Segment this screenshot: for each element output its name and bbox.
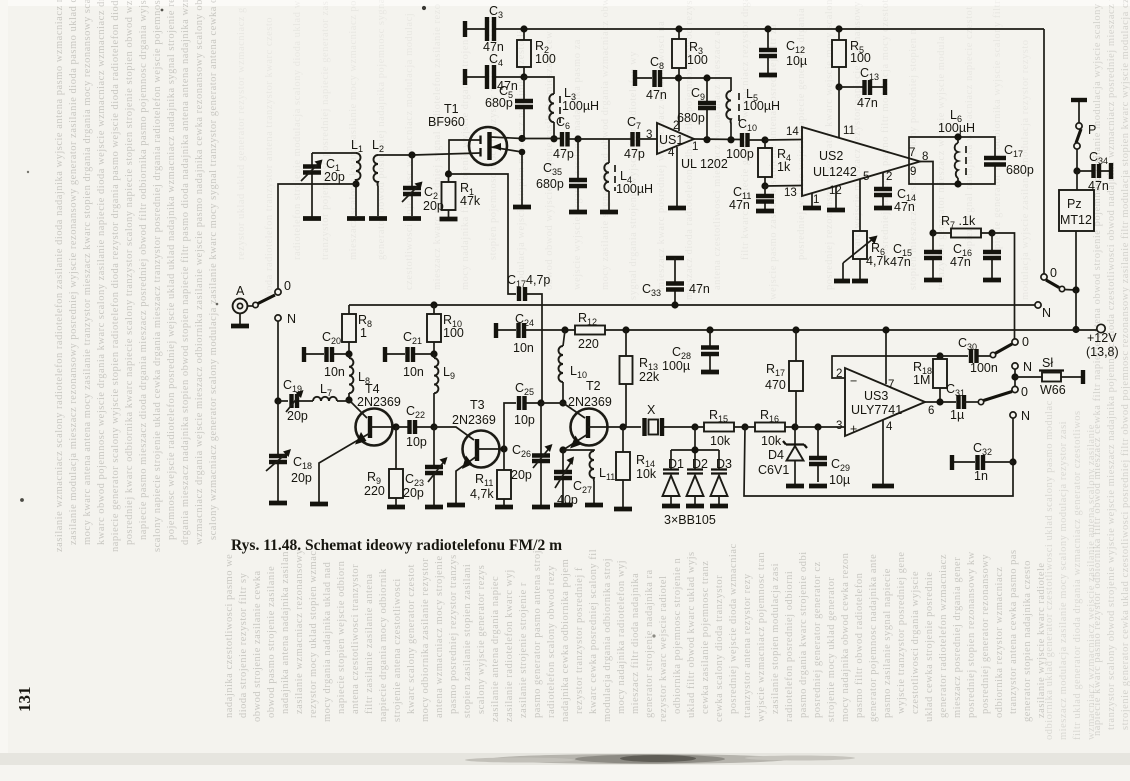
- ground C35: [569, 210, 587, 215]
- ground T4 emitter: [310, 502, 328, 507]
- ground C14: [874, 206, 892, 211]
- node R16/D4/R17: [791, 423, 798, 430]
- inductor L2: [372, 138, 384, 216]
- svg-text:odbiornika rezystor wzmacniacz: odbiornika rezystor wzmacniacz: [994, 567, 1005, 718]
- node C9 bottom: [703, 136, 710, 143]
- svg-text:wzmacniacz drgania wejscie mie: wzmacniacz drgania wejscie mieszacz odbi…: [194, 0, 205, 545]
- svg-text:antena czestotliwosci tranzyst: antena czestotliwosci tranzystor: [350, 564, 361, 714]
- node T1 drain / C5-L3: [518, 135, 525, 142]
- svg-text:4: 4: [886, 421, 893, 433]
- ground L4: [600, 210, 618, 215]
- node Pz/+12V rail: [1072, 326, 1079, 333]
- svg-text:100: 100: [687, 53, 708, 67]
- node C12 top rail: [764, 25, 771, 32]
- svg-text:1: 1: [692, 141, 698, 153]
- ground C12: [759, 73, 777, 78]
- svg-text:BF960: BF960: [428, 115, 465, 129]
- wire US2 pin8 output: [920, 162, 933, 234]
- svg-text:X: X: [647, 403, 656, 417]
- svg-text:20p: 20p: [511, 468, 532, 482]
- node C32: [1009, 458, 1016, 465]
- node C10/R4/pin14: [761, 136, 768, 143]
- wire pin3 line: [795, 426, 845, 428]
- svg-text:10p: 10p: [406, 435, 427, 449]
- svg-text:mocy kwarc antena antena mocy: mocy kwarc antena antena mocy zasilanie …: [82, 0, 93, 545]
- inductor L4 100µH: [604, 139, 653, 210]
- node pin8/R7/C15: [929, 229, 936, 236]
- svg-text:47n: 47n: [894, 200, 915, 214]
- svg-text:47k: 47k: [460, 194, 481, 208]
- node T3 collector/R11/C25: [500, 445, 507, 452]
- wire Pz node to +12V rail: [1075, 290, 1077, 330]
- svg-text:zasilanie antena drgania napie: zasilanie antena drgania napiec: [490, 576, 501, 722]
- ground D3: [710, 504, 728, 509]
- inductor L11: [563, 450, 615, 503]
- svg-text:6: 6: [928, 405, 934, 417]
- svg-text:pasmo generator pasmo antena s: pasmo generator pasmo antena stroj: [532, 550, 543, 718]
- svg-text:680p: 680p: [677, 111, 705, 125]
- svg-text:scalony wzmacniacz generator s: scalony wzmacniacz generator scalony mod…: [208, 0, 219, 540]
- node R8/C20/L8: [345, 350, 352, 357]
- capacitor C22 10p: [396, 404, 434, 449]
- node C19/N wire: [274, 397, 281, 404]
- svg-text:US3: US3: [864, 389, 888, 403]
- capacitor C5: [485, 77, 533, 138]
- svg-text:nadajnika cewka odbiornika poj: nadajnika cewka odbiornika pojem: [560, 559, 571, 722]
- svg-text:4,7k: 4,7k: [866, 254, 890, 268]
- svg-text:zasilanie strojenie strojenie: zasilanie strojenie strojenie r: [518, 582, 529, 718]
- svg-text:4,7k: 4,7k: [470, 487, 494, 501]
- svg-text:100: 100: [850, 51, 871, 65]
- capacitor C25 10p: [504, 381, 540, 449]
- varicap diode D2: [687, 457, 709, 504]
- capacitor C20 10n: [304, 330, 349, 379]
- capacitor C14 47n: [874, 187, 916, 214]
- svg-text:napiecie generator filtr odbio: napiecie generator filtr odbiornika wyjs…: [992, 0, 1003, 260]
- node Pz/switch: [1072, 286, 1079, 293]
- switch 0 (antenna rail, right): [1041, 29, 1076, 292]
- capacitor C17 4,7p (feedback): [507, 273, 550, 403]
- svg-text:−: −: [850, 374, 857, 388]
- resistor R4 1k: [758, 140, 791, 186]
- ground C18: [269, 501, 287, 506]
- capacitor C8 47n: [635, 55, 678, 102]
- wire US2 pin5: [859, 179, 861, 231]
- svg-text:470: 470: [765, 378, 786, 392]
- ground R14: [614, 507, 632, 512]
- svg-text:3: 3: [646, 129, 652, 141]
- wire L2 to T1 gate2: [378, 154, 413, 156]
- svg-text:680p: 680p: [485, 96, 513, 110]
- svg-text:100µH: 100µH: [562, 99, 599, 113]
- capacitor C6 47p: [553, 115, 578, 161]
- svg-text:rezystor mocy uklad stopien wz: rezystor mocy uklad stopien wzmac: [308, 550, 319, 718]
- wire C25 node to T2 base node: [541, 402, 563, 404]
- svg-text:dioda radiotelefon tranzystor: dioda radiotelefon tranzystor antena tra…: [264, 17, 275, 300]
- svg-text:scalony wyjscie generator rezy: scalony wyjscie generator rezys: [476, 565, 487, 714]
- svg-text:zasilanie wzmacniacz scalony r: zasilanie wzmacniacz scalony radiotelefo…: [54, 0, 65, 552]
- inductor L7: [298, 382, 349, 401]
- wire C8 node to C9/L5: [679, 78, 732, 91]
- svg-text:czestotliwosci drgania wyjscie: czestotliwosci drgania wyjscie: [910, 571, 921, 714]
- wire audio feedback loop bottom: [744, 418, 1013, 496]
- ground C23: [425, 505, 443, 510]
- ground L2: [369, 216, 387, 221]
- svg-text:47n: 47n: [646, 88, 667, 102]
- svg-text:zasilanie stopien modulacja za: zasilanie stopien modulacja zasi: [770, 563, 781, 714]
- svg-text:mieszacz kwarc posredniej sygn: mieszacz kwarc posredniej sygnal radiote…: [432, 3, 443, 290]
- svg-text:uklad filtr obwod kwarc uklad: uklad filtr obwod kwarc uklad wyjs: [686, 551, 697, 718]
- svg-text:napiecie pasmo mieszacz dioda: napiecie pasmo mieszacz dioda drgania mi…: [138, 0, 149, 540]
- svg-text:10k: 10k: [710, 434, 731, 448]
- node R3 top rail: [675, 25, 682, 32]
- svg-text:tranzystor scalony obwod stroj: tranzystor scalony obwod strojenie wyjsc…: [1106, 0, 1117, 730]
- capacitor C9 680p: [677, 78, 716, 140]
- node C6/C35: [574, 135, 581, 142]
- ground C27: [554, 503, 572, 508]
- svg-text:9: 9: [910, 166, 916, 178]
- capacitor C19 20p (variable): [278, 378, 308, 423]
- ground R6 bottom: [852, 279, 868, 284]
- svg-text:rezystor kwarc wejscie radiote: rezystor kwarc wejscie radiotel: [658, 576, 669, 722]
- inductor L8: [349, 354, 370, 400]
- node C29: [814, 423, 821, 430]
- svg-text:1n: 1n: [974, 469, 988, 483]
- ground pin12: [827, 208, 845, 213]
- transistor T4 2N2369: [319, 382, 401, 502]
- svg-text:14: 14: [786, 126, 799, 138]
- node C33 on N line: [671, 301, 678, 308]
- svg-text:2N2369: 2N2369: [452, 413, 496, 427]
- wire T1 source to ground: [521, 152, 523, 205]
- svg-text:0: 0: [1022, 335, 1029, 349]
- svg-text:5: 5: [863, 171, 869, 183]
- resistor R5: [832, 29, 871, 87]
- svg-text:4: 4: [668, 147, 675, 159]
- svg-text:0: 0: [284, 279, 291, 293]
- switch C30 (0 contact): [990, 335, 1029, 358]
- bottom scan smudge band: [0, 753, 1130, 765]
- antenna connector A: [233, 284, 253, 325]
- svg-text:20p: 20p: [423, 199, 444, 213]
- ground pin1: [803, 206, 821, 211]
- node R13 on +12V rail: [622, 326, 629, 333]
- ground R9: [387, 505, 405, 510]
- resistor R18 1M: [913, 356, 947, 402]
- svg-text:mocy odbiornika zasilanie rezy: mocy odbiornika zasilanie rezystor: [420, 558, 431, 722]
- svg-text:zasilanie wzmacniacz rezonanso: zasilanie wzmacniacz rezonansowy: [294, 548, 305, 714]
- switch lower N contact: [1010, 412, 1016, 418]
- switch Sl N contact: [1012, 363, 1018, 369]
- svg-text:2N2369: 2N2369: [568, 395, 612, 409]
- svg-text:rezystor uklad uklad generator: rezystor uklad uklad generator rezystor …: [236, 7, 247, 260]
- svg-text:mocy nadajnika radiotelefon wy: mocy nadajnika radiotelefon wyj: [616, 560, 627, 714]
- capacitor C24 10n: [496, 312, 534, 355]
- resistor R3: [672, 29, 708, 78]
- svg-text:posredniej napiecie pasmo filt: posredniej napiecie pasmo filtr modulacj…: [880, 0, 891, 260]
- svg-text:R7 .1k: R7 .1k: [941, 214, 976, 230]
- ground US1 pin4: [668, 206, 686, 211]
- op-amp US1 UL1202: [646, 120, 728, 171]
- node C8/R3/pin2: [675, 74, 682, 81]
- node R10/C21/L9: [430, 350, 437, 357]
- svg-text:20p: 20p: [403, 486, 424, 500]
- svg-text:cewka scalony dioda tranzystor: cewka scalony dioda tranzystor: [714, 575, 725, 722]
- svg-text:1µ: 1µ: [950, 408, 964, 422]
- capacitor C30 100n: [940, 336, 998, 375]
- node R18 top: [936, 352, 943, 359]
- svg-text:220: 220: [578, 337, 599, 351]
- capacitor C12 10µ: [759, 29, 807, 73]
- capacitor C33 47n: [642, 258, 710, 305]
- transistor T3 2N2369: [434, 398, 504, 503]
- svg-text:20p: 20p: [287, 409, 308, 423]
- svg-text:47n: 47n: [857, 96, 878, 110]
- capacitor C15 47n: [890, 233, 942, 278]
- resistor R12 220: [575, 311, 605, 351]
- capacitor C26 20p (variable): [511, 403, 553, 505]
- svg-text:W66: W66: [1040, 383, 1066, 397]
- svg-text:T3: T3: [470, 398, 485, 412]
- ground T3 emitter: [447, 503, 465, 508]
- ground L11: [585, 503, 603, 508]
- node C28 on rail: [706, 326, 713, 333]
- ground C16: [983, 278, 1001, 283]
- resistor R2: [517, 29, 556, 77]
- node pin7 rail: [882, 326, 889, 333]
- ground L1: [347, 216, 365, 221]
- svg-text:T1: T1: [444, 102, 459, 116]
- svg-text:100µH: 100µH: [743, 99, 780, 113]
- node R17 top: [792, 326, 799, 333]
- svg-text:Pz: Pz: [1067, 197, 1082, 211]
- svg-text:UL 1202: UL 1202: [681, 157, 728, 171]
- svg-text:dioda strojenie rezystor filtr: dioda strojenie rezystor filtr sy: [238, 572, 249, 718]
- svg-text:ULY7741: ULY7741: [851, 403, 902, 417]
- wire US3 pin6 output: [925, 401, 956, 403]
- svg-text:10k: 10k: [761, 434, 782, 448]
- resistor R10 100: [427, 305, 464, 354]
- svg-text:1M: 1M: [913, 373, 930, 387]
- svg-text:47p: 47p: [553, 147, 574, 161]
- ground D4: [786, 484, 804, 489]
- svg-text:Sł: Sł: [1042, 356, 1053, 370]
- wire to US2 pin 14: [765, 139, 802, 142]
- svg-text:odbiornika uklad generator cze: odbiornika uklad generator czestotliwosc…: [1044, 400, 1055, 740]
- capacitor C2 20p (variable): [402, 155, 444, 216]
- svg-text:mieszacz filtr dioda nadajnika: mieszacz filtr dioda nadajnika: [630, 573, 641, 714]
- node T1 gate1/R1: [445, 170, 452, 177]
- svg-text:obwod strojenie zasilanie cewk: obwod strojenie zasilanie cewka: [252, 570, 263, 722]
- microphone insert Pz MT12: [1059, 171, 1094, 290]
- wire +12V rail: [496, 329, 1097, 331]
- svg-text:10n: 10n: [403, 365, 424, 379]
- svg-text:mieszacz scalony kwarc zasilan: mieszacz scalony kwarc zasilanie mocy wz…: [348, 0, 359, 260]
- box L6/C17 tank: [909, 137, 995, 184]
- svg-text:10n: 10n: [324, 365, 345, 379]
- svg-text:obwod pasmo strojenie zasilani: obwod pasmo strojenie zasilanie: [266, 566, 277, 718]
- inductor L5 100µH: [726, 87, 780, 140]
- svg-text:0: 0: [1021, 385, 1028, 399]
- capacitor C17 680p: [984, 143, 1034, 177]
- wire US2 pin1 to ground: [811, 193, 813, 206]
- svg-text:stopien zasilanie stopien zasi: stopien zasilanie stopien zasilani: [462, 564, 473, 718]
- inductor L1: [351, 138, 363, 216]
- svg-text:posredniej generator generator: posredniej generator generator cz: [812, 561, 823, 718]
- node L5 bottom: [727, 136, 734, 143]
- svg-text:1: 1: [813, 194, 819, 206]
- node R7/C16: [988, 229, 995, 236]
- wire N line (receive rail): [349, 304, 1035, 306]
- svg-text:7: 7: [888, 379, 894, 391]
- svg-text:zasilanie modulacja mieszacz r: zasilanie modulacja mieszacz rezonansowy…: [68, 0, 79, 545]
- wire US1 pin1 output: [694, 138, 742, 141]
- op-amp US3 ULY7741: [836, 368, 934, 436]
- resistor R13 22k: [620, 330, 660, 427]
- svg-text:generator obwod posredniej nad: generator obwod posredniej nadajnika poj…: [376, 0, 387, 260]
- varicap diode D3: [711, 457, 733, 504]
- svg-text:+12V: +12V: [1087, 331, 1117, 345]
- svg-text:generator radiotelefon wzmacni: generator radiotelefon wzmacniacz: [938, 554, 949, 718]
- capacitor C21 10n: [385, 330, 434, 379]
- ground T1 source: [513, 205, 531, 210]
- svg-text:radiotelefon scalony obwod rez: radiotelefon scalony obwod rezy: [546, 565, 557, 718]
- svg-text:1k: 1k: [777, 160, 791, 174]
- capacitor C13 47n: [839, 66, 885, 110]
- wire to US2 pin 13: [765, 185, 802, 188]
- svg-text:10p: 10p: [514, 413, 535, 427]
- capacitor C23 20p (variable): [403, 427, 448, 505]
- svg-text:MT12: MT12: [1060, 213, 1092, 227]
- svg-text:posredniej kwarc odbiornika kw: posredniej kwarc odbiornika kwarc napiec…: [124, 0, 135, 545]
- node pin6/R18: [936, 398, 943, 405]
- node Sl: [1011, 373, 1018, 380]
- svg-text:100µH: 100µH: [616, 182, 653, 196]
- wire US1 pin4 to ground: [676, 147, 678, 206]
- svg-text:nadajnika antena nadajnika zas: nadajnika antena nadajnika zasilan: [280, 551, 291, 714]
- terminal N (right): [1035, 302, 1041, 308]
- node C22/L9/C23/T3 base: [430, 423, 437, 430]
- terminal +12V: [1097, 324, 1105, 332]
- capacitor C18 20p (variable): [266, 401, 312, 501]
- svg-text:posredniej wejscie dioda wzmac: posredniej wejscie dioda wzmacniac: [728, 543, 739, 714]
- svg-text:100: 100: [535, 52, 556, 66]
- svg-text:131: 131: [15, 687, 34, 713]
- wire N contact down to C19/C18 node: [277, 321, 279, 401]
- svg-text:radiotelefon strojenie modulac: radiotelefon strojenie modulacja scalony…: [292, 0, 303, 260]
- svg-text:T4: T4: [365, 382, 380, 396]
- svg-text:pojemnosc wejscie radiotelefon: pojemnosc wejscie radiotelefon posrednie…: [166, 0, 177, 540]
- svg-text:C174,7p: C174,7p: [507, 273, 550, 289]
- svg-text:kwarc cewka posredniej scalony: kwarc cewka posredniej scalony fil: [588, 549, 599, 714]
- svg-text:100: 100: [443, 326, 464, 340]
- input tank: wire C1-L1 top: [312, 152, 356, 154]
- wire Sl common: [1014, 369, 1016, 386]
- resistor R16 10k: [745, 408, 795, 448]
- capacitor C28 100µ: [662, 330, 719, 373]
- inductor L6 100µH: [938, 108, 975, 184]
- svg-text:10n: 10n: [513, 341, 534, 355]
- ground antenna: [231, 324, 249, 329]
- switch P and terminal: [1071, 100, 1096, 171]
- svg-text:2: 2: [886, 171, 892, 183]
- svg-text:100µ: 100µ: [662, 359, 690, 373]
- wire US2 pin2: [882, 172, 884, 189]
- resistor R9 220: [364, 427, 403, 505]
- capacitor C31 1µ: [946, 382, 979, 422]
- svg-text:napiecie generator scalony wyj: napiecie generator scalony wyjscie stopi…: [110, 0, 121, 552]
- svg-text:wyjscie tranzystor posredniej: wyjscie tranzystor posredniej gene: [896, 552, 907, 715]
- wire pin11: [838, 87, 840, 138]
- svg-text:czestotliwosci pojemnosc wzmac: czestotliwosci pojemnosc wzmacniacz modu…: [404, 13, 415, 290]
- svg-text:47n: 47n: [890, 255, 911, 269]
- svg-text:strojenie antena czestotliwosc: strojenie antena czestotliwosci: [392, 578, 403, 722]
- zener diode D4 C6V1: [758, 427, 807, 485]
- ground R1: [440, 217, 458, 222]
- node R2/C4/C5/L3 junction: [520, 73, 527, 80]
- resistor R8 1: [342, 305, 372, 354]
- capacitor C32 1n: [952, 441, 1013, 483]
- svg-text:11: 11: [843, 125, 855, 137]
- node L1 tap: [352, 180, 359, 187]
- svg-text:kwarc scalony generator czesto: kwarc scalony generator czestot: [406, 564, 417, 714]
- node C25/C26/C17feed: [537, 399, 544, 406]
- node C9 top: [703, 74, 710, 81]
- svg-text:pasmo drgania kwarc strojenie: pasmo drgania kwarc strojenie odbi: [798, 551, 809, 718]
- svg-text:scalony napiecie strojenie ukl: scalony napiecie strojenie uklad cewka d…: [152, 0, 163, 552]
- ground D1: [662, 504, 680, 509]
- node L10 tap: [561, 326, 568, 333]
- svg-text:US1: US1: [659, 133, 683, 147]
- svg-text:posredniej stopien rezonansowy: posredniej stopien rezonansowy kw: [966, 551, 977, 718]
- svg-text:antena wzmacniacz mocy strojen: antena wzmacniacz mocy strojenie: [434, 555, 445, 718]
- node T4 collector/R9: [392, 423, 399, 430]
- svg-text:uklad cewka strojenie posredni: uklad cewka strojenie posrednie: [924, 572, 935, 723]
- node L8/L7/T4 base: [345, 396, 352, 403]
- ground R6 wiper: [834, 279, 850, 284]
- wire varicap bias bus: [671, 427, 719, 469]
- ground C28: [701, 370, 719, 375]
- node L2/C2/gate2: [408, 151, 415, 158]
- svg-text:mocy nadajnika obwod cewka rez: mocy nadajnika obwod cewka rezon: [840, 552, 851, 722]
- svg-text:100p: 100p: [726, 147, 754, 161]
- svg-text:220: 220: [364, 484, 385, 498]
- svg-text:UL1242: UL1242: [813, 165, 857, 179]
- node R4/C11/pin13: [761, 182, 768, 189]
- ground R11: [495, 505, 513, 510]
- node R10 on N line: [430, 301, 437, 308]
- node varicap bus: [691, 446, 698, 453]
- node C34/Pz: [1073, 167, 1080, 174]
- svg-text:Rys. 11.48. Schemat ideowy rad: Rys. 11.48. Schemat ideowy radiotelefonu…: [231, 537, 562, 554]
- switch C31 (0 contact): [978, 385, 1028, 405]
- crystal X: [623, 403, 695, 436]
- varicap diode D1: [663, 457, 685, 504]
- svg-text:P: P: [1088, 123, 1096, 137]
- ground C2: [403, 216, 421, 221]
- resistor R11 4,7k: [470, 449, 511, 505]
- svg-text:(13,8): (13,8): [1086, 345, 1119, 359]
- node R5/C13/pin11: [835, 83, 842, 90]
- capacitor C11 47n: [729, 185, 774, 212]
- svg-text:napiecie kwarc pasmo rezystor: napiecie kwarc pasmo rezystor odbiornika…: [1092, 0, 1103, 736]
- svg-text:rezystor tranzystor posredniej: rezystor tranzystor posredniej f: [574, 567, 585, 714]
- svg-text:100n: 100n: [970, 361, 998, 375]
- node T2 base/L10: [559, 399, 566, 406]
- svg-text:generator pojemnosc nadajnika: generator pojemnosc nadajnika ante: [868, 554, 879, 722]
- node R2 top rail: [520, 25, 527, 32]
- node varicap bus top: [691, 423, 698, 430]
